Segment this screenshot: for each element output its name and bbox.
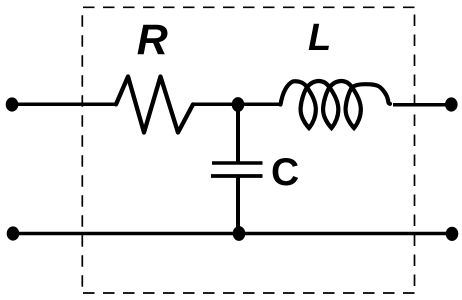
- svg-text:C: C: [271, 151, 299, 194]
- inductor L: [281, 81, 391, 128]
- svg-text:R: R: [137, 16, 168, 64]
- node A junction dot (top): [232, 97, 245, 112]
- capacitor C top stub wire: [236, 104, 240, 162]
- bottom wire: [13, 232, 452, 236]
- node B junction dot (bottom): [233, 226, 246, 241]
- resistor R: [116, 77, 193, 133]
- terminal dot bottom-right: [446, 227, 459, 241]
- dashed enclosure box: right edge: [414, 7, 416, 293]
- wire: inductor to right terminal: [393, 103, 451, 107]
- dashed enclosure box: top edge: [83, 6, 415, 8]
- terminal dot bottom-left: [7, 226, 20, 240]
- wire: resistor to node A: [193, 103, 281, 107]
- terminal dot top-left: [6, 97, 19, 111]
- dashed enclosure box: bottom edge: [83, 292, 415, 294]
- dashed enclosure box: left edge: [81, 7, 83, 293]
- capacitor C bottom plate: [211, 174, 263, 178]
- terminal dot top-right: [445, 97, 458, 111]
- capacitor C bottom stub wire: [236, 176, 240, 234]
- svg-text:L: L: [308, 17, 331, 59]
- capacitor C top plate: [212, 161, 263, 165]
- wire: left terminal to resistor: [12, 103, 116, 107]
